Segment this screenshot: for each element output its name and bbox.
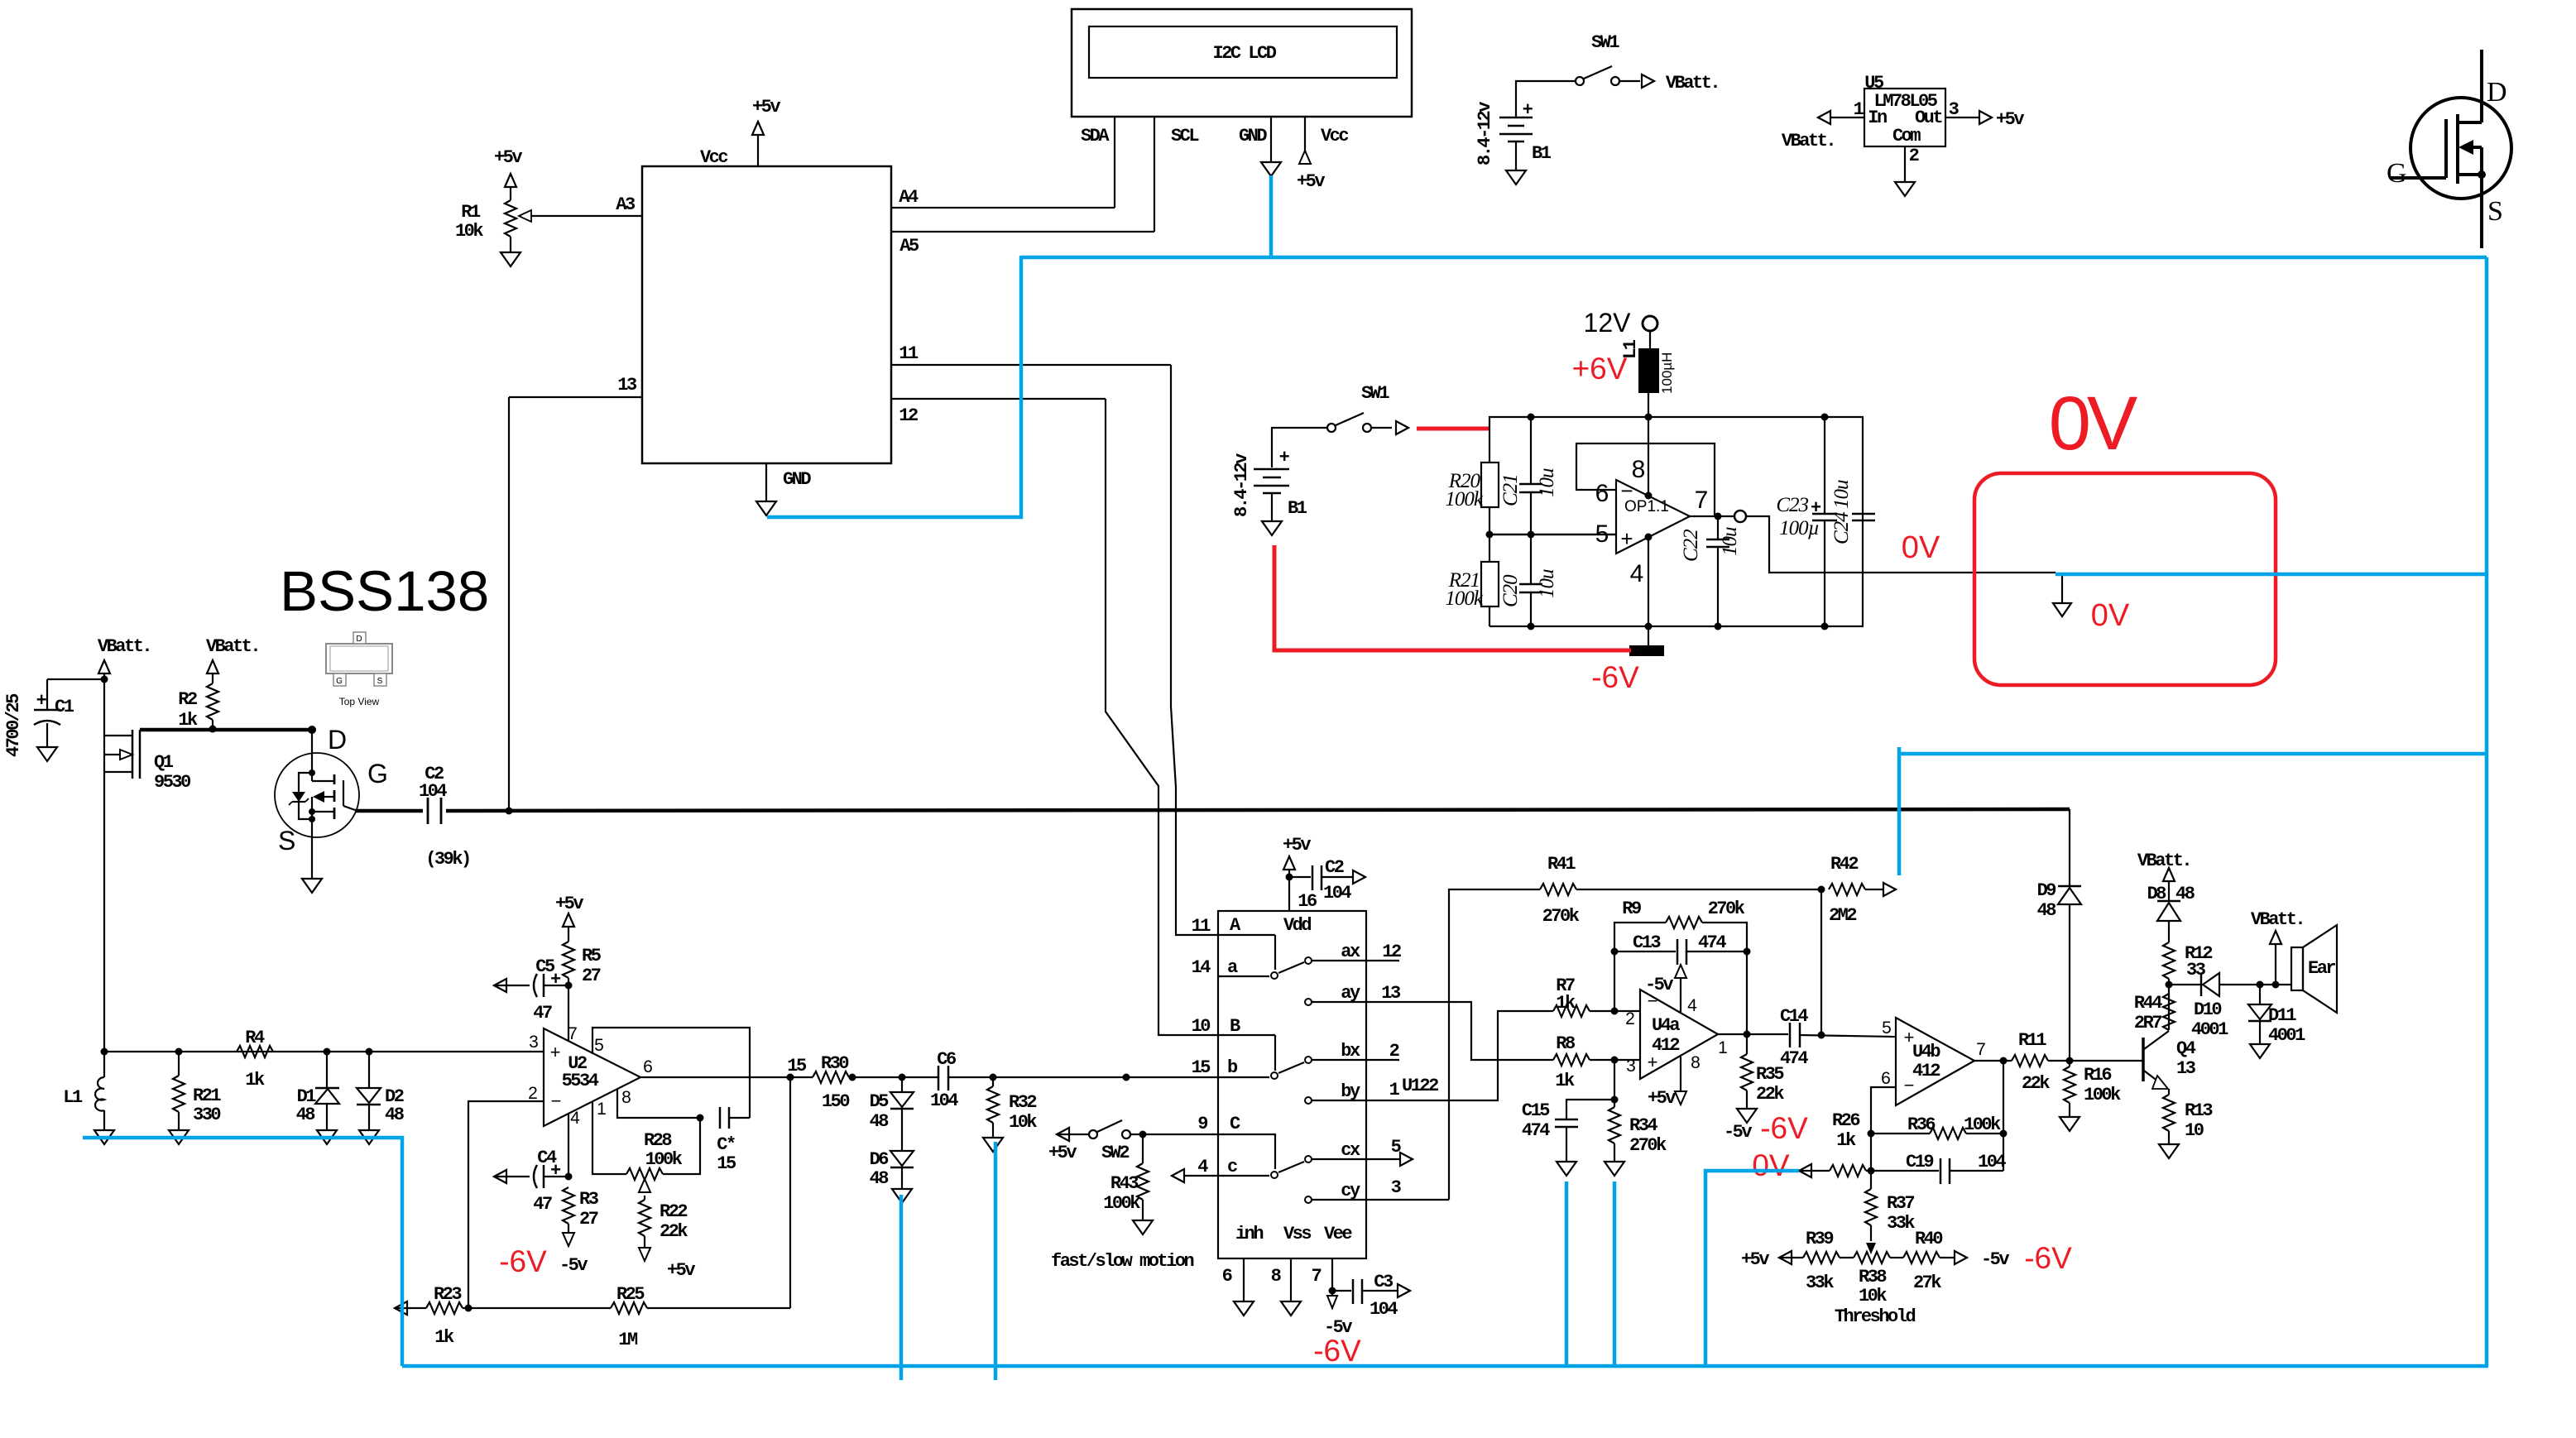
U4a output node <box>1718 1031 1788 1038</box>
svg-text:100k: 100k <box>1445 488 1484 510</box>
capacitor C13 474 <box>1611 932 1751 965</box>
svg-text:fast/slow motion: fast/slow motion <box>1051 1251 1194 1272</box>
svg-text:48: 48 <box>870 1168 890 1189</box>
svg-text:Vcc: Vcc <box>700 147 727 168</box>
svg-text:-5v: -5v <box>1645 975 1673 995</box>
svg-text:8.4-12v: 8.4-12v <box>1231 453 1252 517</box>
U122 pin7 Vee <box>1312 1258 1353 1338</box>
svg-text:c: c <box>1227 1157 1237 1177</box>
svg-text:R25: R25 <box>616 1284 645 1305</box>
svg-text:R37: R37 <box>1887 1193 1914 1214</box>
label -6V (U2) <box>499 1244 547 1278</box>
speaker Ear <box>2251 909 2337 1013</box>
svg-text:5534: 5534 <box>562 1071 599 1091</box>
svg-text:Threshold: Threshold <box>1835 1306 1916 1327</box>
switch SW2 <box>1048 1120 1218 1163</box>
svg-text:9530: 9530 <box>154 772 190 793</box>
svg-text:48: 48 <box>870 1111 890 1132</box>
svg-text:4700/25: 4700/25 <box>3 693 24 757</box>
blue wire right bus <box>2485 257 2489 1366</box>
svg-text:C15: C15 <box>1522 1100 1550 1121</box>
svg-text:8.4-12v: 8.4-12v <box>1475 102 1495 165</box>
svg-text:9: 9 <box>1197 1114 1207 1134</box>
svg-text:8: 8 <box>1632 456 1646 483</box>
U2 pin8 wire <box>617 1089 704 1122</box>
svg-text:8: 8 <box>1691 1053 1701 1072</box>
svg-text:1k: 1k <box>1556 993 1576 1014</box>
svg-text:4001: 4001 <box>2268 1025 2305 1046</box>
svg-text:Top View: Top View <box>339 696 380 707</box>
svg-text:B1: B1 <box>1532 143 1552 164</box>
svg-text:1k: 1k <box>1836 1130 1856 1151</box>
svg-text:VBatt.: VBatt. <box>98 636 151 657</box>
resistor R32 10k <box>983 1077 1037 1152</box>
resistor R21 100k <box>1445 562 1499 610</box>
label -6V (mid) <box>1591 660 1639 694</box>
svg-text:0V: 0V <box>1752 1148 1790 1182</box>
diode D10 4001 <box>2169 973 2291 1040</box>
svg-text:-6V: -6V <box>1313 1334 1361 1368</box>
svg-text:48: 48 <box>385 1105 405 1125</box>
resistor R12 33 <box>2163 942 2212 994</box>
svg-text:GND: GND <box>783 469 811 490</box>
capacitor C19 104 <box>1868 1152 2007 1184</box>
svg-text:C2: C2 <box>1325 857 1344 878</box>
svg-text:R30: R30 <box>821 1053 848 1074</box>
svg-text:33: 33 <box>2186 960 2206 980</box>
red wire -6V <box>1274 545 1631 650</box>
capacitor C6 104 <box>930 1049 1218 1111</box>
svg-text:100k: 100k <box>1103 1193 1140 1214</box>
svg-text:OP1.1: OP1.1 <box>1624 498 1669 515</box>
svg-text:S: S <box>377 677 383 686</box>
VBatt. node left <box>98 636 151 730</box>
MCU Vcc pin <box>700 97 780 168</box>
svg-text:2: 2 <box>1389 1041 1399 1062</box>
svg-text:0V: 0V <box>1902 530 1940 565</box>
svg-text:100µH: 100µH <box>1659 352 1675 394</box>
svg-text:In: In <box>1868 108 1887 128</box>
diode D6 48 <box>870 1109 914 1203</box>
OP1.1 pin 4 wire <box>1645 534 1653 627</box>
svg-text:270k: 270k <box>1629 1135 1667 1156</box>
svg-text:SCL: SCL <box>1171 126 1199 146</box>
svg-text:(39k): (39k) <box>425 849 470 870</box>
svg-text:4001: 4001 <box>2191 1019 2228 1040</box>
OP1.1 feedback wire pin6 <box>1576 443 1715 516</box>
svg-text:10k: 10k <box>1009 1112 1037 1133</box>
svg-text:R42: R42 <box>1830 854 1858 875</box>
svg-text:R21: R21 <box>193 1086 221 1106</box>
svg-text:16: 16 <box>1298 891 1317 912</box>
U122 switch b output by <box>1305 1011 1553 1104</box>
svg-text:−: − <box>551 1090 562 1111</box>
svg-text:U122: U122 <box>1402 1076 1438 1096</box>
svg-text:R9: R9 <box>1622 899 1641 919</box>
node search coil line <box>101 1048 544 1056</box>
U4b feedback R36 100k <box>1868 1061 2008 1171</box>
svg-text:104: 104 <box>419 781 447 802</box>
svg-text:33k: 33k <box>1806 1273 1834 1293</box>
svg-text:33k: 33k <box>1887 1213 1915 1234</box>
svg-text:-5v: -5v <box>1724 1122 1752 1143</box>
blue wire LCD gnd <box>1269 175 1274 256</box>
MCU pin 13 <box>509 375 642 397</box>
diode D11 4001 <box>2248 985 2305 1058</box>
svg-text:Vdd: Vdd <box>1283 915 1311 936</box>
capacitor C* 15 <box>717 1107 750 1174</box>
svg-text:27: 27 <box>582 966 601 986</box>
capacitor C20 10u <box>1499 534 1558 626</box>
blue wire MCU gnd <box>767 256 1021 517</box>
svg-text:7: 7 <box>1976 1040 1986 1059</box>
U122 pin8 Vss <box>1271 1258 1301 1316</box>
svg-text:inh: inh <box>1235 1224 1263 1244</box>
resistor R9 270k <box>1614 899 1747 1035</box>
svg-text:2: 2 <box>528 1084 538 1103</box>
resistor R30 150 <box>790 1053 938 1112</box>
diode D5 48 <box>870 1074 914 1133</box>
svg-text:14: 14 <box>1192 957 1211 978</box>
capacitor C24 10u <box>1830 480 1875 544</box>
svg-text:C23: C23 <box>1776 494 1808 516</box>
svg-text:R3: R3 <box>579 1189 599 1210</box>
capacitor C23 100u <box>1776 417 1837 626</box>
svg-text:15: 15 <box>787 1056 807 1076</box>
resistor R22 22k <box>639 1179 695 1281</box>
svg-text:22k: 22k <box>2022 1073 2050 1094</box>
svg-text:+5v: +5v <box>667 1260 695 1281</box>
svg-text:R2: R2 <box>178 689 197 710</box>
regulator U5 LM78L05 <box>1782 73 2024 196</box>
resistor R11 22k <box>2012 1030 2143 1094</box>
svg-text:+5v: +5v <box>1648 1088 1676 1109</box>
svg-text:U4a: U4a <box>1652 1015 1680 1036</box>
capacitor C22 10u <box>1680 513 1741 627</box>
capacitor C1 4700/25 <box>3 679 104 761</box>
svg-text:-6V: -6V <box>1591 660 1639 694</box>
svg-text:100k: 100k <box>1964 1114 2001 1135</box>
potentiometer R38 10k <box>1854 1252 1890 1306</box>
svg-text:VBatt.: VBatt. <box>2251 909 2304 930</box>
label 0V (big) <box>2049 381 2137 466</box>
svg-text:104: 104 <box>1323 883 1351 904</box>
svg-text:100k: 100k <box>645 1149 683 1170</box>
svg-text:2R7: 2R7 <box>2134 1013 2161 1033</box>
svg-text:C13: C13 <box>1633 932 1661 953</box>
U4a pin8 +5v <box>1648 1057 1686 1109</box>
svg-text:0V: 0V <box>2049 381 2137 466</box>
resistor R34 270k <box>1605 1100 1667 1176</box>
svg-text:C22: C22 <box>1680 530 1702 562</box>
resistor R7 1k <box>1553 975 1640 1017</box>
op-amp U4a 412 <box>1625 990 1728 1079</box>
Q2 source ground <box>302 852 322 893</box>
svg-text:+: + <box>1620 526 1633 551</box>
svg-text:-6V: -6V <box>499 1244 547 1278</box>
resistor R8 1k <box>1553 1033 1640 1091</box>
svg-text:27: 27 <box>579 1209 598 1229</box>
svg-text:1M: 1M <box>618 1330 638 1350</box>
svg-text:48: 48 <box>296 1105 316 1125</box>
resistor R41 270k <box>1449 854 1825 1200</box>
svg-text:R44: R44 <box>2134 993 2162 1014</box>
wire gate thick (39k) line <box>355 809 2070 811</box>
resistor R40 27k <box>1890 1229 2009 1293</box>
svg-text:47: 47 <box>533 1003 552 1023</box>
svg-text:Ear: Ear <box>2308 958 2335 979</box>
blue wire R42 link <box>1899 747 2487 875</box>
battery B1 (top) <box>1475 100 1552 185</box>
svg-text:L1: L1 <box>63 1087 83 1108</box>
svg-text:Com: Com <box>1892 126 1921 146</box>
svg-text:13: 13 <box>617 375 637 395</box>
svg-text:SW1: SW1 <box>1361 383 1389 404</box>
wire pin12 to U122 B <box>1106 399 1218 1035</box>
transistor Q2 BSS138 symbol <box>275 725 388 856</box>
svg-text:R4: R4 <box>245 1028 265 1048</box>
diode D1 48 <box>296 1052 339 1144</box>
U122 switch b <box>1218 1035 1399 1079</box>
svg-text:2: 2 <box>1625 1009 1635 1028</box>
diode D2 48 <box>357 1052 405 1144</box>
MOSFET pinout labels D G S <box>2387 77 2507 227</box>
svg-text:D6: D6 <box>870 1149 889 1170</box>
svg-text:-6V: -6V <box>2024 1241 2072 1275</box>
svg-text:12: 12 <box>899 405 918 426</box>
wire pin13 to C2 line <box>506 397 513 815</box>
svg-text:D9: D9 <box>2037 880 2056 901</box>
svg-text:47: 47 <box>533 1194 552 1215</box>
svg-text:104: 104 <box>1978 1152 2006 1172</box>
resistor R44 2R7 <box>2134 993 2175 1033</box>
svg-text:G: G <box>2387 158 2407 189</box>
svg-text:D11: D11 <box>2268 1005 2296 1026</box>
svg-text:4: 4 <box>1630 560 1644 587</box>
svg-text:VBatt.: VBatt. <box>1666 73 1719 93</box>
svg-text:R16: R16 <box>2084 1065 2111 1086</box>
svg-text:GND: GND <box>1239 126 1267 146</box>
svg-text:R39: R39 <box>1806 1229 1833 1249</box>
U122 pin6 inh <box>1222 1258 1254 1316</box>
inductor L1 coil <box>63 1052 114 1144</box>
svg-text:C20: C20 <box>1499 574 1522 607</box>
svg-text:R43: R43 <box>1111 1173 1139 1194</box>
svg-text:104: 104 <box>930 1090 958 1111</box>
LCD GND pin <box>1239 117 1281 176</box>
svg-text:R11: R11 <box>2018 1030 2046 1051</box>
resistor R39 33k <box>1741 1229 1854 1293</box>
svg-text:150: 150 <box>822 1091 849 1112</box>
svg-text:D10: D10 <box>2194 999 2221 1020</box>
svg-text:C3: C3 <box>1374 1272 1394 1292</box>
MCU pin A4 <box>891 187 1115 208</box>
svg-text:7: 7 <box>1312 1266 1322 1287</box>
switch SW1 (top) <box>1516 32 1719 117</box>
U122 switch c output cy <box>1305 1177 1449 1203</box>
resistor R21 330 <box>169 1052 221 1144</box>
svg-text:I2C LCD: I2C LCD <box>1213 43 1277 64</box>
svg-text:VBatt.: VBatt. <box>206 636 259 657</box>
svg-text:ay: ay <box>1341 983 1360 1004</box>
OP1.1 pin 8 wire <box>1645 417 1653 500</box>
svg-text:3: 3 <box>529 1033 539 1052</box>
svg-text:VBatt.: VBatt. <box>2137 851 2190 871</box>
svg-text:10u: 10u <box>1719 527 1741 556</box>
LCD SDA pin <box>1081 117 1115 208</box>
LCD Vcc pin <box>1297 117 1348 192</box>
label BSS138 <box>280 559 489 623</box>
svg-text:C19: C19 <box>1906 1152 1933 1172</box>
svg-text:Vss: Vss <box>1283 1224 1311 1244</box>
capacitor C3 104 <box>1332 1272 1410 1320</box>
svg-text:10u: 10u <box>1830 480 1853 509</box>
svg-text:R26: R26 <box>1832 1110 1859 1131</box>
svg-text:100k: 100k <box>2084 1085 2121 1105</box>
blue wire bottom rail <box>402 1364 2488 1368</box>
svg-text:bx: bx <box>1341 1041 1360 1062</box>
svg-text:10u: 10u <box>1536 468 1558 497</box>
blue wire gnd bus top <box>1021 256 2487 260</box>
svg-text:R1: R1 <box>461 202 481 223</box>
MCU pin 12 <box>891 399 1106 426</box>
svg-text:ax: ax <box>1341 942 1360 962</box>
svg-text:+5v: +5v <box>1048 1143 1077 1163</box>
svg-text:C1: C1 <box>55 697 74 717</box>
svg-text:cy: cy <box>1341 1181 1360 1201</box>
svg-text:330: 330 <box>193 1105 220 1125</box>
svg-text:D: D <box>328 725 347 755</box>
label -6V (bottom) <box>1313 1334 1361 1368</box>
svg-text:0V: 0V <box>2091 598 2130 633</box>
svg-text:C6: C6 <box>937 1049 956 1070</box>
svg-text:3: 3 <box>1626 1057 1636 1076</box>
U2 pin4 wire <box>568 1114 569 1177</box>
svg-text:B1: B1 <box>1288 498 1307 519</box>
svg-text:1k: 1k <box>178 710 198 731</box>
VBatt. node R2 <box>206 636 259 683</box>
U122 switch c <box>1172 1134 1413 1182</box>
svg-text:474: 474 <box>1522 1120 1550 1141</box>
op-amp U2 5534 <box>528 1024 653 1128</box>
blue wire C15 gnd <box>1565 1182 1569 1366</box>
svg-text:12V: 12V <box>1584 308 1632 338</box>
svg-text:SW2: SW2 <box>1101 1143 1129 1163</box>
svg-text:270k: 270k <box>1542 906 1580 927</box>
svg-text:1k: 1k <box>434 1327 454 1348</box>
svg-text:C24: C24 <box>1830 512 1853 544</box>
MCU pin 11 <box>891 343 1171 365</box>
svg-text:R38: R38 <box>1859 1267 1887 1287</box>
svg-text:G: G <box>336 677 343 686</box>
svg-text:A3: A3 <box>616 194 636 215</box>
svg-text:BSS138: BSS138 <box>280 559 489 623</box>
supply rail top <box>1489 414 1863 630</box>
svg-text:-5v: -5v <box>559 1255 588 1276</box>
svg-text:-5v: -5v <box>1981 1249 2009 1270</box>
svg-text:5: 5 <box>1882 1019 1892 1038</box>
ground 0V <box>2053 574 2130 633</box>
BSS138 package top view <box>326 632 392 707</box>
svg-text:R40: R40 <box>1915 1229 1942 1249</box>
capacitor C4 47 <box>494 1148 573 1215</box>
svg-text:5: 5 <box>594 1036 604 1055</box>
blue wire D6 gnd <box>899 1195 904 1380</box>
svg-text:6: 6 <box>643 1057 653 1076</box>
svg-text:2M2: 2M2 <box>1829 905 1856 926</box>
svg-text:412: 412 <box>1912 1061 1940 1081</box>
label -6V (threshold) <box>2024 1241 2072 1275</box>
svg-text:27k: 27k <box>1913 1273 1941 1293</box>
svg-text:1: 1 <box>1718 1038 1728 1057</box>
potentiometer R28 100k <box>592 1101 700 1180</box>
potentiometer R1 10k <box>455 147 522 266</box>
op-amp OP1.1 <box>1595 456 1709 587</box>
svg-text:48: 48 <box>2037 900 2057 921</box>
blue wire 0V line <box>2056 573 2487 577</box>
OP1.1 pin5 wire <box>1489 534 1616 535</box>
svg-text:R41: R41 <box>1547 854 1576 875</box>
resistor R23 1k <box>395 1284 473 1348</box>
analog switch U122 <box>1192 911 1439 1258</box>
svg-text:A5: A5 <box>899 236 919 256</box>
svg-text:10: 10 <box>1192 1016 1211 1037</box>
U2 pin5 compensation loop <box>592 1028 750 1118</box>
svg-text:Vee: Vee <box>1324 1224 1352 1244</box>
svg-text:VBatt.: VBatt. <box>1782 131 1835 151</box>
LCD SCL pin <box>1154 117 1199 232</box>
resistor R4 1k <box>237 1028 273 1090</box>
svg-text:1k: 1k <box>245 1070 265 1090</box>
label 0V (line) <box>1902 530 1940 565</box>
svg-text:+: + <box>550 1042 561 1062</box>
svg-text:4: 4 <box>570 1109 580 1128</box>
svg-text:A4: A4 <box>899 187 919 208</box>
svg-text:1k: 1k <box>1555 1071 1575 1091</box>
svg-text:C21: C21 <box>1499 474 1522 506</box>
svg-text:Q1: Q1 <box>154 752 174 773</box>
svg-text:Vcc: Vcc <box>1321 126 1348 146</box>
red wire SW1 to rail <box>1417 427 1489 431</box>
svg-text:2: 2 <box>1909 146 1919 166</box>
12V input terminal <box>1584 308 1657 348</box>
svg-text:R36: R36 <box>1907 1114 1935 1135</box>
wire R23 to U2 pin2 <box>468 1101 544 1308</box>
svg-text:cx: cx <box>1341 1140 1360 1161</box>
wire pin11 to U122 A <box>1171 365 1218 935</box>
svg-text:100µ: 100µ <box>1779 517 1819 539</box>
svg-text:+5v: +5v <box>1996 109 2024 130</box>
wire to R25 <box>789 1077 791 1308</box>
svg-text:7: 7 <box>1695 487 1709 514</box>
blue wire R26 0V <box>1705 1171 1799 1366</box>
svg-text:13: 13 <box>1381 983 1401 1004</box>
svg-text:474: 474 <box>1698 932 1726 953</box>
blue wire bottom left <box>83 1138 402 1366</box>
svg-text:+5v: +5v <box>1741 1249 1769 1270</box>
red highlight box 0V <box>1974 473 2276 685</box>
svg-text:100k: 100k <box>1445 587 1484 610</box>
svg-text:R32: R32 <box>1009 1092 1036 1113</box>
svg-text:1: 1 <box>597 1100 607 1119</box>
wire Q1 drain thick <box>140 728 312 732</box>
capacitor C21 10u <box>1499 417 1558 534</box>
resistor R26 1k <box>1799 1110 1871 1177</box>
resistor R42 2M2 <box>1821 854 1896 1035</box>
svg-text:270k: 270k <box>1708 899 1745 919</box>
svg-text:R13: R13 <box>2185 1100 2213 1121</box>
MCU pin A3 <box>519 194 642 222</box>
